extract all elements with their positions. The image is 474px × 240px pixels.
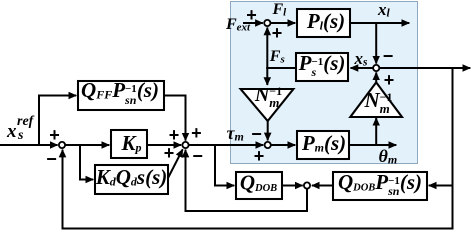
wire triangle Nm2 output up into J2 (375, 72, 377, 82)
block Kp (111, 130, 147, 158)
block QDOB (236, 172, 282, 199)
summing junction J2 (373, 65, 379, 71)
wire tau_m line J4 to J3 (189, 144, 264, 146)
sign plus J2 bottom (384, 71, 395, 89)
label F_ext (226, 17, 250, 33)
summing junction J4 (182, 142, 188, 148)
label QDOB Psn^-1(s) (338, 172, 422, 197)
label Ps^-1(s) (299, 53, 346, 78)
label F_l (273, 2, 287, 18)
sign minus J3 (251, 125, 262, 143)
label x_l (378, 1, 390, 20)
block QDOB Psn^-1(s) (333, 172, 427, 200)
sign minus J2 top (383, 47, 394, 65)
gain triangle Nm1 (241, 89, 294, 121)
wire QDOBPsn output into Jd (312, 185, 333, 187)
label Nm2 (364, 90, 392, 115)
wire feedback into QDOBPsn block (429, 185, 453, 187)
wire x_l branch down into J2 (375, 23, 377, 64)
wire DOB feedback up into J4 (186, 150, 308, 211)
summing junction J3 (265, 142, 271, 148)
label Nm1 (255, 84, 282, 107)
wire Fs vertical up into J1 (266, 28, 268, 70)
sign plus J4 topright (191, 124, 202, 142)
label Pl(s) (307, 11, 345, 32)
block KdQds(s) (95, 165, 168, 194)
wire Pm output theta_m (349, 144, 396, 146)
block Pl(s) (297, 9, 350, 37)
wire x_s^ref input (0, 144, 58, 146)
label KdQds(s) (96, 167, 168, 188)
label Pm(s) (302, 133, 346, 154)
sign minus J4 right (192, 147, 203, 165)
sign plus J1 left (246, 6, 257, 24)
wire tap down to QDOB input (215, 145, 234, 186)
block Ps^-1(s) (296, 53, 348, 81)
summing junction J0 (59, 142, 65, 148)
wire Fs vertical down into triangle Nm1 (266, 67, 268, 85)
wire branch up into triangle Nm2 (375, 118, 377, 145)
label x_s (355, 50, 368, 69)
sign plus J3 (254, 147, 265, 165)
summing junction Jd (304, 182, 310, 188)
wire Kp to J4 (147, 144, 181, 146)
sign plus J0 top (49, 126, 60, 144)
label F_s (270, 49, 285, 65)
wire triangle Nm1 output down into J3 (267, 121, 269, 140)
sign minus J0 bottom (46, 150, 57, 168)
label Kp (121, 133, 141, 154)
label theta_m (379, 147, 398, 165)
wire Pl output x_l (350, 22, 409, 24)
label tau_m (227, 124, 244, 142)
wire branch up to QFF block (39, 96, 76, 145)
wire right feedback down and along bottom into J0 (63, 68, 453, 229)
wire J2 output right (379, 67, 470, 69)
sign plus J4 left (164, 144, 175, 162)
wire Ps output left to Fs line (266, 67, 296, 69)
wire QDOB output into Jd (282, 185, 303, 187)
label x_s^ref subscript s (18, 129, 23, 143)
label QFF Psn^-1(s) (81, 80, 159, 105)
shaded plant region (230, 1, 418, 164)
block Pm(s) (297, 131, 349, 159)
sign plus J1 bottom (272, 24, 283, 42)
wire Kd diagonal output into J4 (168, 149, 183, 178)
label x_s^ref superscript ref (17, 115, 33, 129)
wire branch down to Kd block (80, 145, 93, 180)
wire J1 to Pl (270, 22, 295, 24)
wire J3 to Pm (271, 144, 295, 146)
summing junction J1 (264, 20, 270, 26)
label QDOB (240, 173, 277, 195)
wire J0 to Kp (65, 144, 109, 146)
wire J2 left into Ps block (351, 67, 374, 69)
label x_s^ref (7, 122, 17, 141)
sign plus J4 topleft (169, 126, 180, 144)
gain triangle Nm2 (350, 82, 402, 117)
wire F_ext input into J1 (243, 22, 263, 24)
wire QFF output down into J4 (164, 96, 186, 141)
block QFF Psn^-1(s) (78, 81, 164, 110)
